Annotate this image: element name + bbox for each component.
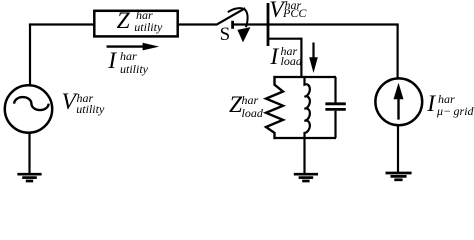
label I_microgrid main I [427, 93, 435, 117]
wire: utility source top lead [29, 25, 31, 85]
switch S blade [216, 8, 245, 25]
switch S closing arrowhead [237, 27, 250, 42]
label V_utility superscript har [77, 92, 94, 104]
label Z_utility main Z [117, 10, 130, 34]
load network bottom rail [274, 137, 337, 139]
sine wave inside source [14, 97, 48, 110]
label I_utility main I [108, 50, 116, 74]
node: PCC bus bar [267, 3, 270, 46]
current arrow I_load [309, 43, 318, 74]
label I_utility subscript utility [120, 63, 148, 75]
label Z_load main Z [229, 94, 242, 118]
switch S fixed contact tick [231, 21, 234, 29]
capacitor bottom lead [334, 111, 336, 138]
wire: utility source bottom lead [28, 133, 30, 174]
current source arrow [394, 83, 404, 120]
label Z_utility subscript utility [134, 21, 162, 33]
wire: load tap horizontal from PCC bus [268, 38, 301, 40]
label V_utility main V [62, 91, 76, 115]
label I_load superscript har [281, 45, 298, 57]
impedance block Z_utility [94, 11, 177, 37]
label switch S [220, 25, 231, 44]
label Z_utility superscript har [136, 9, 153, 21]
label I_load subscript load [281, 55, 302, 67]
wire: switch to PCC bus [233, 23, 269, 25]
label I_microgrid superscript har [438, 93, 455, 105]
capacitor plates [325, 104, 345, 110]
wire: Z block to switch [179, 23, 217, 25]
wire: microgrid branch vertical drop [397, 25, 399, 79]
wire: load network to ground [303, 138, 305, 173]
current arrow I_utility [107, 43, 160, 51]
label I_microgrid subscript mu-grid [437, 105, 474, 117]
label V_PCC main V [269, 0, 283, 22]
load network top rail [274, 76, 337, 78]
label I_utility superscript har [120, 50, 137, 62]
ground (microgrid) [386, 173, 412, 180]
ground (utility) [17, 174, 41, 181]
wire: load tap vertical drop [300, 38, 302, 77]
label V_utility subscript utility [76, 103, 104, 115]
capacitor top lead [334, 77, 336, 102]
label Z_load subscript load [242, 107, 263, 119]
inductor (load L) [305, 76, 310, 139]
label Z_load superscript har [242, 94, 259, 106]
wire: top horizontal from source to Z block [29, 23, 94, 25]
current source I_microgrid circle [375, 78, 422, 125]
label V_PCC superscript har [285, 0, 302, 11]
switch S closing arc [228, 8, 248, 27]
label V_PCC subscript PCC [283, 7, 306, 19]
wire: PCC bus to microgrid branch (top horizontal) [268, 23, 399, 25]
resistor Z_load zigzag [266, 76, 283, 139]
ground (load) [294, 174, 318, 181]
voltage source V_utility circle [5, 85, 52, 132]
wire: current source to ground [397, 126, 399, 172]
label I_load main I [270, 46, 278, 70]
